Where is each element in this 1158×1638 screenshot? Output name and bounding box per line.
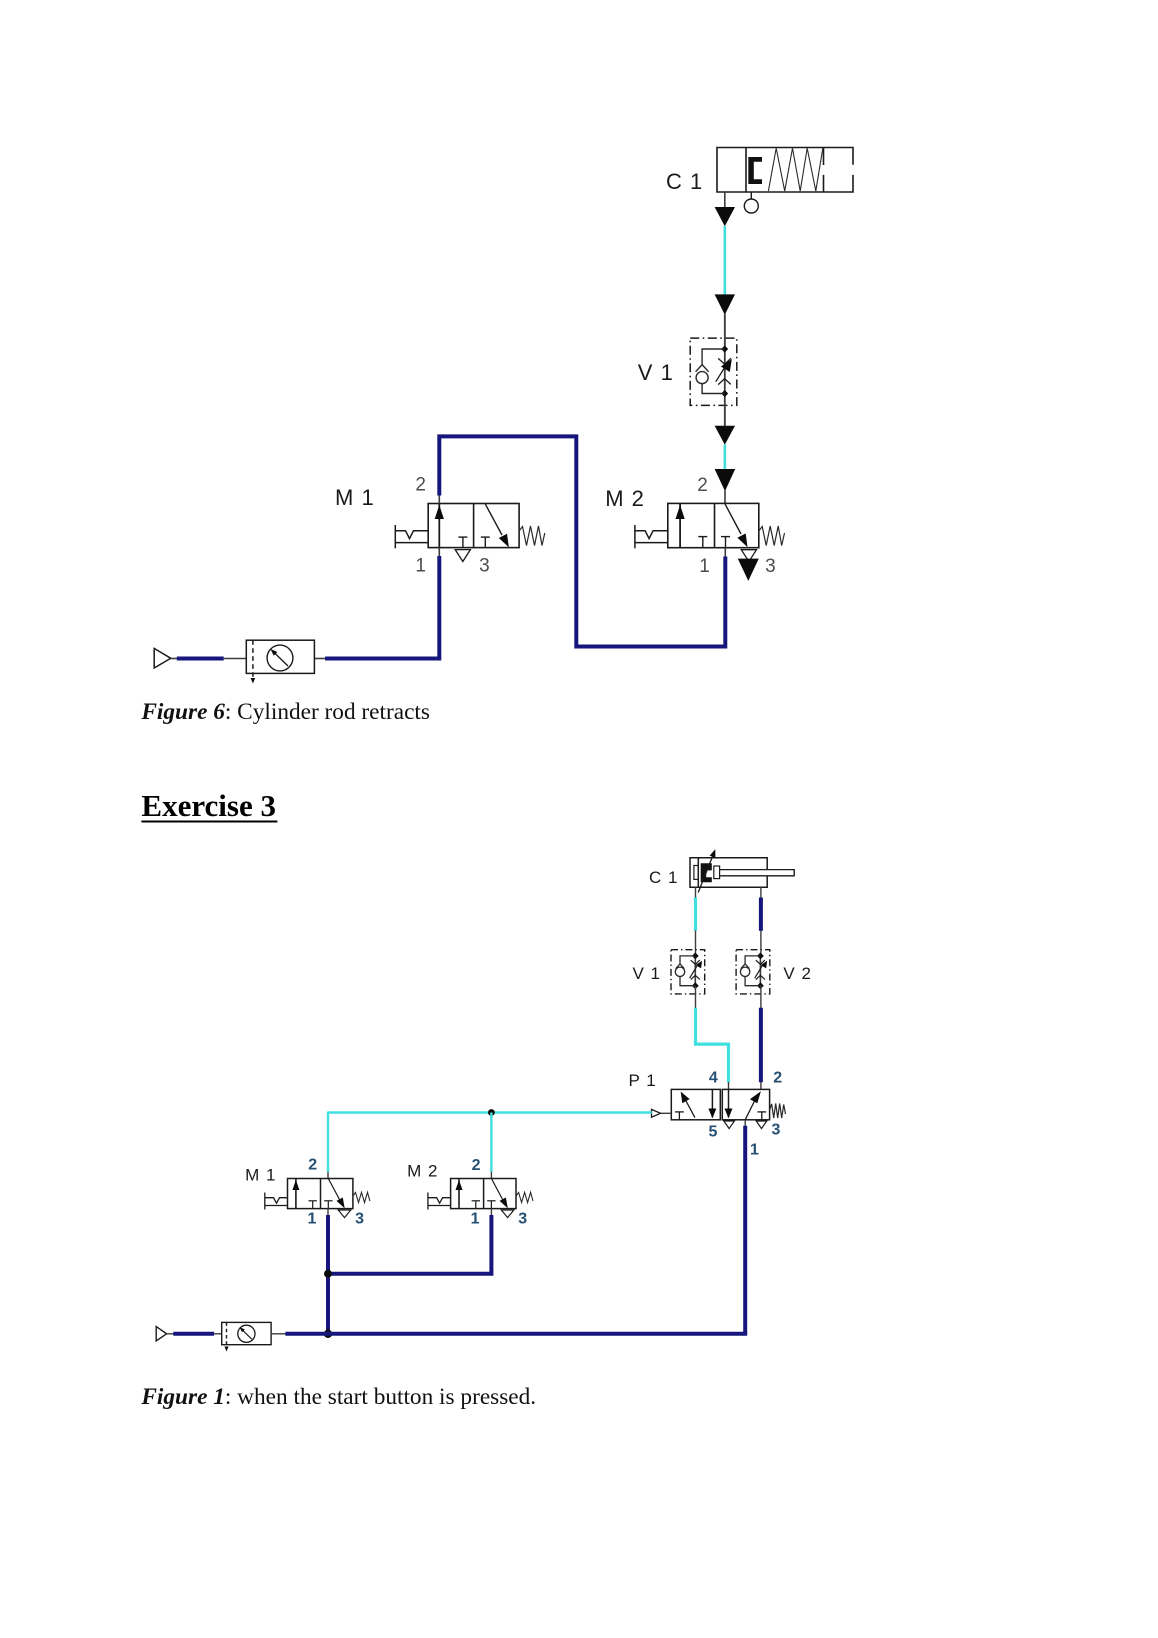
svg-text:M 2: M 2 (407, 1161, 438, 1180)
wire source stub fig2 (167, 1333, 174, 1335)
valve M2 flow path left box (679, 504, 681, 548)
valve M2 blocked port right box (721, 537, 730, 548)
P1 exhaust vent 3 (756, 1121, 767, 1129)
svg-text:3: 3 (479, 555, 490, 576)
wire cyan V1 to P1 port4 (696, 1008, 729, 1082)
svg-text:Exercise 3: Exercise 3 (141, 788, 276, 823)
V2 adjust arrow (755, 964, 763, 978)
svg-text:1: 1 (471, 1210, 480, 1227)
wire V1 to arrow C (724, 405, 726, 426)
P1 left box down flow (711, 1089, 713, 1117)
cylinder C1 return spring (768, 148, 822, 191)
valve M2 fig2 flow path left box (458, 1179, 460, 1209)
wire M2 port2 stub (490, 1172, 492, 1179)
wire M2 fig2 port1 stub (490, 1209, 492, 1216)
P1 right box down flow (728, 1089, 730, 1117)
wire cyan C1 to V1 (723, 226, 726, 295)
svg-text:V 1: V 1 (633, 964, 662, 983)
svg-text:3: 3 (355, 1210, 364, 1227)
valve M1 fig2 diagonal 2-3 (328, 1179, 339, 1200)
flow arrow A (715, 207, 735, 226)
wire navy source to filter fig2 (173, 1332, 214, 1336)
wire C1 port stub (724, 192, 726, 207)
valve M1 blocked port right box (481, 537, 490, 548)
cylinder C1 piston bracket (748, 157, 762, 184)
wire C1 left port stub (695, 887, 697, 898)
wire V2 into box fig2 (760, 931, 762, 956)
junction M1 M2 (324, 1270, 332, 1278)
cylinder C1 fig2 cushion arrow (698, 857, 712, 893)
V1 node top (721, 346, 728, 353)
V1 fig2 throttle arcs (691, 960, 700, 980)
V1 fig2 check valve branch (675, 956, 695, 986)
svg-text:1: 1 (750, 1142, 759, 1159)
V1 throttle arcs (718, 358, 731, 384)
V1 fig2 adjust arrow (690, 964, 698, 978)
svg-text:2: 2 (697, 475, 708, 496)
V2 throttle arcs (756, 960, 765, 980)
wire navy supply main fig2 (285, 1332, 747, 1336)
V1 fig2 main line (694, 956, 696, 986)
valve M2 fig2 blocked port left (472, 1201, 480, 1209)
wire navy V2 to P1 port2 (759, 1008, 763, 1082)
wire filter stub fig2 left (214, 1333, 222, 1335)
V1 main line (724, 314, 726, 427)
svg-text:2: 2 (415, 475, 426, 496)
svg-text:C 1: C 1 (649, 868, 678, 887)
wire navy M1 port2 to M2 port1 (439, 436, 725, 646)
valve M1 body (428, 504, 519, 548)
svg-text:Figure 6: Cylinder rod retract: Figure 6: Cylinder rod retracts (140, 699, 430, 725)
V1 check valve branch (696, 349, 725, 394)
V1 adjust arrow (716, 364, 727, 382)
valve M2 blocked port left box (698, 537, 707, 548)
svg-text:3: 3 (772, 1122, 781, 1139)
wire M1 port2 stub (327, 1172, 329, 1179)
valve M2 flow path 2-3 diagonal (725, 504, 741, 534)
svg-text:2: 2 (308, 1156, 317, 1173)
cylinder C1 vent port circle (744, 192, 758, 213)
valve M1 spring (519, 526, 545, 546)
cylinder C1 fig2 body (690, 858, 794, 888)
wire M1 fig2 port1 stub (327, 1209, 329, 1216)
throttle check valve V1 enclosure (690, 338, 737, 405)
wire filter stubs (224, 658, 247, 660)
junction supply (324, 1330, 332, 1338)
wire M1 port2 stub (438, 495, 440, 504)
P1 exhaust vent 5 (724, 1121, 735, 1129)
V1 node bottom (721, 390, 728, 397)
wire navy M2 port1 to junction (328, 1215, 491, 1274)
valve M1 fig2 spring (353, 1192, 370, 1202)
P1 left box diagonal flow (685, 1099, 695, 1118)
svg-text:4: 4 (709, 1069, 718, 1086)
flow arrow D (715, 469, 736, 491)
svg-text:3: 3 (518, 1210, 527, 1227)
valve M2 spring (759, 526, 785, 546)
wire V1 fig2 below box (695, 986, 697, 1009)
svg-text:P 1: P 1 (629, 1071, 657, 1090)
wire navy C1 right port (759, 898, 763, 931)
valve M1 fig2 blocked port left (309, 1201, 317, 1209)
flow arrow B (715, 294, 735, 314)
wire filter stub fig2 right (271, 1333, 286, 1335)
throttle check valve V1 fig2 enclosure (671, 950, 705, 994)
valve M1 exhaust vent (455, 550, 470, 562)
junction pilot line (488, 1109, 495, 1116)
cylinder C1 body (717, 148, 853, 193)
V1 fig2 node bottom (692, 982, 699, 989)
wire V2 below box (760, 986, 762, 1009)
valve M2 fig2 blocked port right (487, 1201, 495, 1209)
svg-text:1: 1 (415, 555, 426, 576)
wire M2 port1 stub (724, 548, 726, 557)
cylinder C1 fig2 piston (701, 863, 712, 882)
heading underline (141, 821, 277, 823)
valve M2 fig2 exhaust vent (501, 1210, 514, 1218)
throttle check valve V2 enclosure (736, 950, 770, 994)
valve M2 manual actuator (635, 525, 668, 548)
valve M1 manual actuator (395, 525, 428, 548)
V2 node top (757, 953, 764, 960)
valve M1 flow path 2-3 diagonal (485, 504, 502, 535)
valve P1 body (671, 1089, 769, 1119)
svg-text:3: 3 (765, 556, 776, 577)
svg-text:5: 5 (709, 1123, 718, 1140)
svg-text:V 2: V 2 (783, 964, 812, 983)
V2 node bottom (757, 982, 764, 989)
valve M2 fig2 body (451, 1179, 516, 1209)
P1 left box blocked port (675, 1112, 684, 1120)
wire P1 port1 stub (744, 1120, 746, 1126)
P1 pilot triangle (652, 1109, 661, 1117)
flow arrow C (715, 426, 735, 445)
svg-text:M 2: M 2 (605, 486, 645, 511)
valve M1 fig2 blocked port right (324, 1201, 332, 1209)
wire cyan V1 to M2 (723, 445, 726, 470)
svg-text:M 1: M 1 (335, 485, 375, 510)
wire C1 right port stub (760, 887, 762, 898)
valve M1 fig2 manual actuator (265, 1193, 288, 1210)
wire into V1 fig2 (695, 931, 697, 956)
svg-text:M 1: M 1 (245, 1166, 276, 1185)
valve M1 fig2 body (288, 1179, 353, 1209)
V2 check valve branch (740, 956, 760, 986)
valve M2 exhaust flow arrow (738, 559, 759, 581)
wire cyan M2 port2 riser (490, 1113, 492, 1173)
valve M1 flow path 1-2 (438, 504, 440, 548)
svg-text:C 1: C 1 (666, 169, 703, 194)
valve M2 fig2 manual actuator (428, 1193, 451, 1210)
wire M1 port1 stub (438, 548, 440, 557)
valve M2 body (668, 503, 759, 547)
compressed air source fig1 (154, 648, 171, 668)
valve M1 fig2 exhaust vent (338, 1210, 351, 1218)
wire navy M1 port1 to supply (326, 1215, 330, 1334)
wire navy supply to M1 port1 (325, 556, 439, 659)
wire stub into P1 port4 (728, 1082, 730, 1089)
air service unit fig1 (246, 640, 314, 679)
wire cyan M1 port2 riser (327, 1112, 329, 1173)
svg-text:1: 1 (699, 556, 710, 577)
svg-text:1: 1 (308, 1210, 317, 1227)
svg-text:2: 2 (472, 1157, 481, 1174)
svg-text:V 1: V 1 (638, 360, 674, 385)
P1 right box blocked port (757, 1112, 766, 1120)
compressed air source fig2 (156, 1327, 166, 1341)
valve M1 blocked port left box (458, 537, 467, 548)
V1 fig2 node top (692, 953, 699, 960)
wire navy source to filter (177, 657, 224, 661)
wire into M2 port 2 (724, 490, 726, 503)
P1 pilot stub (661, 1112, 672, 1114)
valve M2 fig2 spring (516, 1192, 533, 1202)
valve M2 exhaust vent (741, 550, 756, 562)
wire stub into P1 port2 (760, 1082, 762, 1089)
air service unit fig2 (222, 1322, 271, 1348)
V2 main line (759, 956, 761, 986)
valve M2 fig2 diagonal 2-3 (491, 1179, 502, 1200)
wire source stub (171, 658, 178, 660)
wire cyan C1 left port (694, 898, 697, 931)
wire cyan pilot line (328, 1111, 652, 1113)
P1 return spring (770, 1104, 786, 1119)
P1 right box diagonal flow 1-2 (745, 1101, 754, 1120)
wire navy P1 port1 to supply (743, 1126, 747, 1334)
valve M1 fig2 flow path left box (295, 1179, 297, 1209)
wire into V1 (724, 314, 726, 350)
svg-text:Figure 1: when the start butto: Figure 1: when the start button is press… (140, 1384, 536, 1410)
svg-text:2: 2 (773, 1069, 782, 1086)
